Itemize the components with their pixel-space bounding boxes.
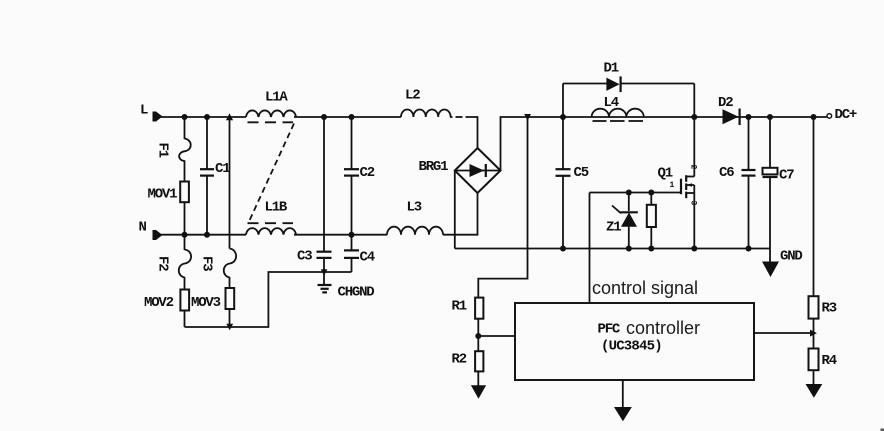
wire negative rail (455, 248, 770, 250)
wire R3 branch vertical (813, 117, 815, 296)
wire L rail left (161, 116, 246, 118)
chassis ground CHGND (318, 285, 332, 292)
varistor MOV3 (226, 288, 235, 309)
svg-text:R4: R4 (822, 353, 837, 369)
junction L-C3 (321, 114, 327, 120)
svg-text:L3: L3 (407, 200, 422, 216)
wire bridge left vertex down (454, 171, 456, 249)
wire gate line (590, 192, 682, 194)
junction MOV3-earth (226, 324, 233, 331)
svg-text:MOV3: MOV3 (191, 295, 221, 311)
svg-text:L: L (140, 103, 148, 119)
junction rail-Q1 (691, 114, 697, 120)
svg-text:PFC: PFC (598, 322, 621, 338)
capacitor C1 (200, 117, 214, 235)
wire bridge right vertex up (501, 117, 828, 171)
ground GND symbol (762, 249, 779, 278)
ground below controller (614, 380, 632, 421)
wire N rail left (161, 234, 246, 236)
wire L to F3 branch (229, 117, 231, 249)
wire divider tap to controller (478, 335, 515, 337)
junction sense tap (524, 114, 531, 121)
resistor R1 (475, 298, 483, 319)
svg-text:L2: L2 (405, 88, 420, 104)
junction L-C1 (204, 114, 210, 120)
svg-text:1: 1 (670, 181, 675, 190)
junction gate-Z1 (626, 190, 632, 196)
capacitor C4 (344, 235, 359, 272)
svg-text:D1: D1 (604, 61, 619, 77)
ground below R4 (806, 370, 823, 398)
junction gnd-Q1 (691, 246, 697, 252)
svg-text:D2: D2 (718, 95, 733, 111)
junction R1-R2 (475, 333, 481, 339)
fuse F2 (179, 235, 191, 290)
wire MOV1 to N (184, 202, 186, 235)
choke L1A winding (246, 110, 296, 117)
svg-text:2: 2 (689, 165, 698, 170)
svg-text:R1: R1 (452, 299, 467, 315)
wire D1 branch top right (622, 83, 695, 85)
svg-text:MOV1: MOV1 (148, 187, 178, 203)
svg-text:R3: R3 (822, 301, 837, 317)
wire D1 branch top left (563, 83, 607, 85)
wire L2 to bridge top corner (450, 116, 453, 118)
svg-text:controller: controller (626, 318, 700, 338)
wire L rail mid (294, 116, 401, 118)
junction rail-C7 (767, 114, 773, 120)
wire MOV3 stub (229, 309, 231, 327)
ground below R2 (471, 371, 486, 398)
terminal DC+ (827, 114, 832, 119)
choke core dash lower (248, 222, 294, 224)
svg-text:DC+: DC+ (835, 107, 857, 123)
svg-text:L1B: L1B (265, 200, 288, 216)
junction gnd-C6 (746, 246, 752, 252)
svg-text:BRG1: BRG1 (419, 159, 449, 175)
svg-text:F2: F2 (155, 256, 171, 271)
svg-text:N: N (139, 220, 147, 236)
wire L-C3 branch vertical (323, 117, 325, 252)
svg-text:C2: C2 (360, 165, 375, 181)
svg-text:control signal: control signal (592, 278, 698, 298)
junction N-C2C4 (349, 232, 355, 238)
choke core diagonal (249, 124, 294, 222)
node L terminal arrow (153, 112, 163, 122)
junction gnd-Rg (648, 246, 654, 252)
bridge rectifier BRG1 (455, 148, 501, 193)
fuse F3 (224, 249, 236, 289)
svg-text:Z1: Z1 (606, 220, 621, 236)
node N terminal arrow (153, 230, 163, 240)
svg-text:C3: C3 (297, 249, 312, 265)
gate resistor (647, 193, 656, 249)
junction rail-C5 (560, 114, 566, 120)
resistor R3 (809, 296, 819, 318)
junction gate-Rg (648, 190, 654, 196)
svg-text:C7: C7 (779, 168, 794, 184)
svg-text:3: 3 (689, 201, 698, 206)
junction L-C2 (349, 114, 355, 120)
junction N-C1 (204, 232, 210, 238)
svg-text:CHGND: CHGND (338, 285, 375, 301)
wire control signal drop (589, 193, 591, 304)
junction gnd-C5 (560, 246, 566, 252)
svg-text:R2: R2 (452, 352, 467, 368)
capacitor C2 (344, 117, 359, 235)
junction rail-R3 (811, 114, 817, 120)
transistor Q1 (681, 175, 694, 248)
zener Z1 (612, 193, 638, 249)
svg-text:C4: C4 (360, 250, 375, 266)
wire L3 to bridge bottom corner (443, 193, 478, 235)
junction arrow controller-divider (810, 330, 817, 337)
svg-text:F1: F1 (155, 143, 171, 158)
junction L-F1 (182, 114, 188, 120)
wire protective earth run (185, 272, 352, 327)
inductor L3 (387, 227, 443, 235)
inductor L4 (592, 109, 644, 121)
svg-text:MOV2: MOV2 (144, 295, 174, 311)
wire controller output to R3R4 tap (754, 332, 811, 334)
wire D1 branch right vertical (Q1 drain) (693, 84, 695, 177)
inductor L2 (401, 110, 451, 118)
wire N rail mid (294, 234, 387, 236)
wire sense line down (478, 117, 527, 298)
svg-text:L1A: L1A (265, 90, 288, 106)
capacitor C5 (556, 117, 571, 249)
varistor MOV2 (180, 290, 189, 311)
diode D2 (723, 109, 740, 126)
resistor R2 (475, 351, 483, 371)
artifact dark mark corner (881, 429, 884, 431)
choke L1B winding (246, 228, 296, 235)
junction gnd-Z1 (626, 246, 632, 252)
capacitor C3 (317, 252, 332, 285)
svg-text:L4: L4 (604, 95, 619, 111)
junction N-MOV1 (182, 232, 188, 238)
junction rail-C6 (746, 114, 752, 120)
svg-text:C1: C1 (215, 161, 230, 177)
svg-text:(UC3845): (UC3845) (601, 339, 662, 355)
svg-text:F3: F3 (199, 256, 215, 271)
diode D1 (606, 76, 620, 92)
junction L-F3 (226, 113, 233, 120)
svg-text:C5: C5 (574, 165, 589, 181)
svg-text:C6: C6 (719, 165, 734, 181)
capacitor C6 (742, 117, 756, 249)
capacitor C7 polarized (763, 117, 778, 249)
choke core dash upper (248, 121, 294, 123)
wire D1 branch left vertical (562, 84, 564, 118)
resistor R4 (809, 349, 819, 371)
varistor MOV1 (180, 182, 189, 203)
svg-text:GND: GND (780, 249, 802, 265)
wire R3-R4 (813, 319, 815, 349)
fuse F1 (179, 117, 191, 182)
junction C3-earth (321, 269, 328, 275)
svg-text:Q1: Q1 (658, 166, 673, 182)
wire MOV2 stub (184, 311, 186, 328)
PFC controller box U1 (515, 303, 754, 380)
wire R1-R2 (477, 319, 479, 352)
